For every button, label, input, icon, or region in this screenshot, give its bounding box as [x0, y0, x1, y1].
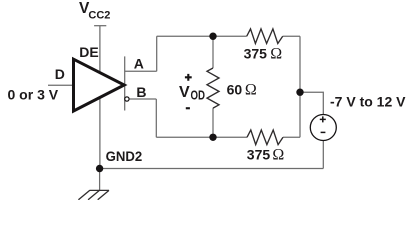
wire: right vertical bus — [299, 36, 301, 137]
svg-text:60: 60 — [227, 82, 243, 98]
node: junction right bus / source — [296, 89, 303, 96]
svg-text:375: 375 — [244, 45, 268, 61]
voltage source minus sign — [321, 131, 326, 133]
svg-text:Ω: Ω — [245, 82, 257, 99]
wire: source bottom lead — [322, 141, 324, 169]
wire: A output horizontal — [125, 70, 157, 72]
wire: 60 ohm bottom lead — [212, 108, 214, 137]
svg-text:D: D — [55, 66, 65, 82]
svg-text:DE: DE — [79, 44, 98, 60]
wire: bottom rail left segment — [156, 136, 247, 138]
svg-text:-7 V to 12 V: -7 V to 12 V — [330, 94, 406, 110]
op-amp driver triangle U1 — [74, 59, 125, 111]
wire: top rail right segment — [283, 35, 300, 37]
voltage source V1 circle — [310, 115, 336, 141]
node: junction top rail / 60 ohm — [209, 33, 216, 40]
wire: GND2 rail — [100, 168, 324, 170]
wire: source tap from node to circle — [300, 92, 323, 114]
wire: D input — [48, 84, 74, 86]
label plus above Vod — [185, 74, 192, 81]
wire: top rail left segment — [157, 35, 247, 37]
svg-text:Ω: Ω — [270, 45, 282, 62]
wire: ground lead — [99, 169, 101, 191]
resistor R3 375 ohm (bottom) — [247, 130, 283, 145]
svg-text:V: V — [179, 84, 190, 101]
wire: Vcc2 terminal bar — [94, 25, 106, 27]
svg-text:OD: OD — [191, 89, 206, 103]
wire: B drop — [155, 99, 157, 137]
inverting bubble on B output — [125, 97, 129, 101]
node: junction bottom rail / 60 ohm — [209, 134, 216, 141]
svg-text:375: 375 — [247, 147, 271, 163]
label minus below Vod — [186, 107, 190, 109]
resistor R1 375 ohm (top) — [247, 29, 283, 44]
wire: Vcc2/DE vertical through driver to GND2 — [99, 26, 101, 169]
ground symbol — [78, 190, 109, 199]
node: junction GND2 — [96, 165, 103, 172]
wire: B output horizontal — [129, 98, 156, 100]
wire: bottom rail right segment — [283, 136, 300, 138]
svg-text:B: B — [136, 84, 146, 100]
wire: 60 ohm top lead — [212, 36, 214, 68]
svg-text:A: A — [134, 56, 144, 72]
svg-text:CC2: CC2 — [88, 10, 110, 22]
svg-text:0 or 3 V: 0 or 3 V — [8, 87, 59, 103]
svg-text:GND2: GND2 — [106, 148, 143, 164]
svg-text:Ω: Ω — [272, 147, 284, 164]
resistor R2 60 ohm (vertical) — [207, 68, 219, 108]
voltage source plus sign — [320, 116, 326, 122]
wire: output stub at driver apex — [124, 56, 126, 110]
wire: A riser to top rail — [156, 36, 158, 71]
